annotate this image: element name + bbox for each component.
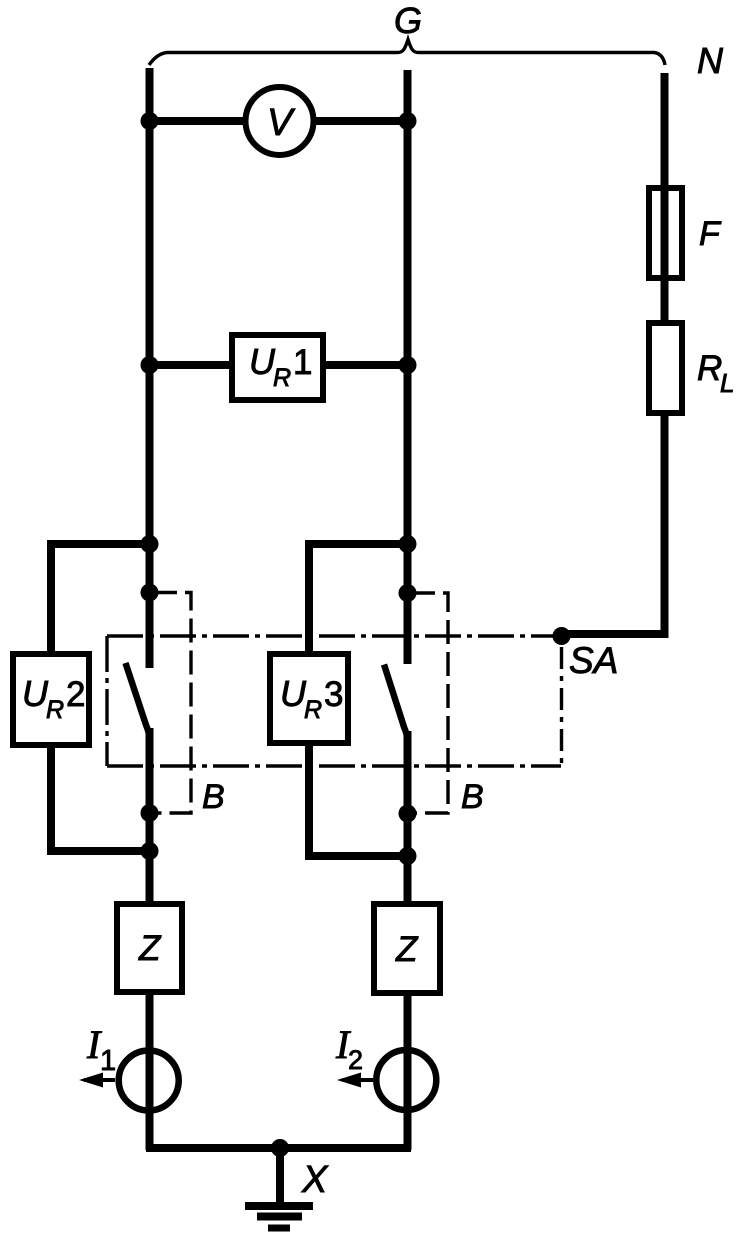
wire UR1 row [150,361,408,369]
node left V [141,112,159,130]
box Z right [374,904,440,993]
svg-text:V: V [267,102,296,144]
node SA [553,627,571,645]
svg-text:X: X [301,1159,329,1201]
box UR1 [232,335,323,400]
node middle lower branch [399,847,417,865]
wire UR2 bottom branch [51,745,150,851]
svg-text:1: 1 [293,343,312,382]
wire middle bus [404,70,412,664]
svg-text:2: 2 [348,1045,363,1075]
wire middle bus lower [404,731,412,1150]
enclosure dash-dot B left-to-SA [107,636,562,766]
svg-text:Z: Z [395,930,419,969]
svg-text:Z: Z [138,929,162,968]
wire right bus to SA [562,413,665,634]
wire UR3 top branch [309,544,408,654]
switch B1 frame dashed [153,593,191,814]
switch B2 blade [384,665,408,743]
svg-text:F: F [699,215,722,253]
wire right bus N [661,73,669,320]
box UR2 [13,654,89,745]
svg-text:G: G [394,0,422,41]
svg-text:B: B [461,778,484,816]
fuse F [649,188,682,278]
svg-text:1: 1 [100,1045,116,1077]
wire bottom [146,1144,411,1152]
wire left bus [146,68,154,668]
node middle UR1 [399,356,417,374]
wire V row [150,117,408,125]
node left UR1 [141,356,159,374]
svg-text:R: R [304,696,322,724]
wire left bus lower [146,728,154,1150]
node middle V [399,112,417,130]
svg-text:SA: SA [569,640,618,681]
svg-text:U: U [280,673,307,714]
svg-text:R: R [273,364,291,392]
brace G [149,40,665,66]
svg-text:L: L [720,368,734,398]
svg-text:2: 2 [66,675,85,714]
label I1 [86,1022,116,1077]
voltmeter V [246,87,314,155]
node switch2 bottom [399,805,417,823]
current transformer I2 [337,1050,436,1110]
current transformer I1 [79,1051,179,1111]
svg-text:N: N [697,40,724,81]
box UR3 [270,654,348,743]
svg-text:B: B [202,778,225,816]
node left upper branch [141,535,159,553]
svg-text:R: R [697,349,722,388]
svg-text:R: R [46,696,64,724]
node left lower branch [141,842,159,860]
label I2 [335,1022,363,1075]
label RL [697,349,734,398]
node middle upper branch [399,535,417,553]
wire UR3 bottom branch [309,743,408,856]
switch B1 blade [126,663,150,740]
node switch2 top [399,584,417,602]
switch B2 frame dashed [411,593,448,813]
resistor RL [649,323,682,413]
node switch1 bottom [141,804,159,822]
svg-text:U: U [22,673,49,714]
svg-text:U: U [249,341,276,382]
svg-text:3: 3 [324,675,343,714]
box Z left [117,904,182,992]
wire UR2 top branch [51,544,150,654]
node switch1 top [141,584,159,602]
ground [245,1148,313,1232]
node X [271,1139,289,1157]
